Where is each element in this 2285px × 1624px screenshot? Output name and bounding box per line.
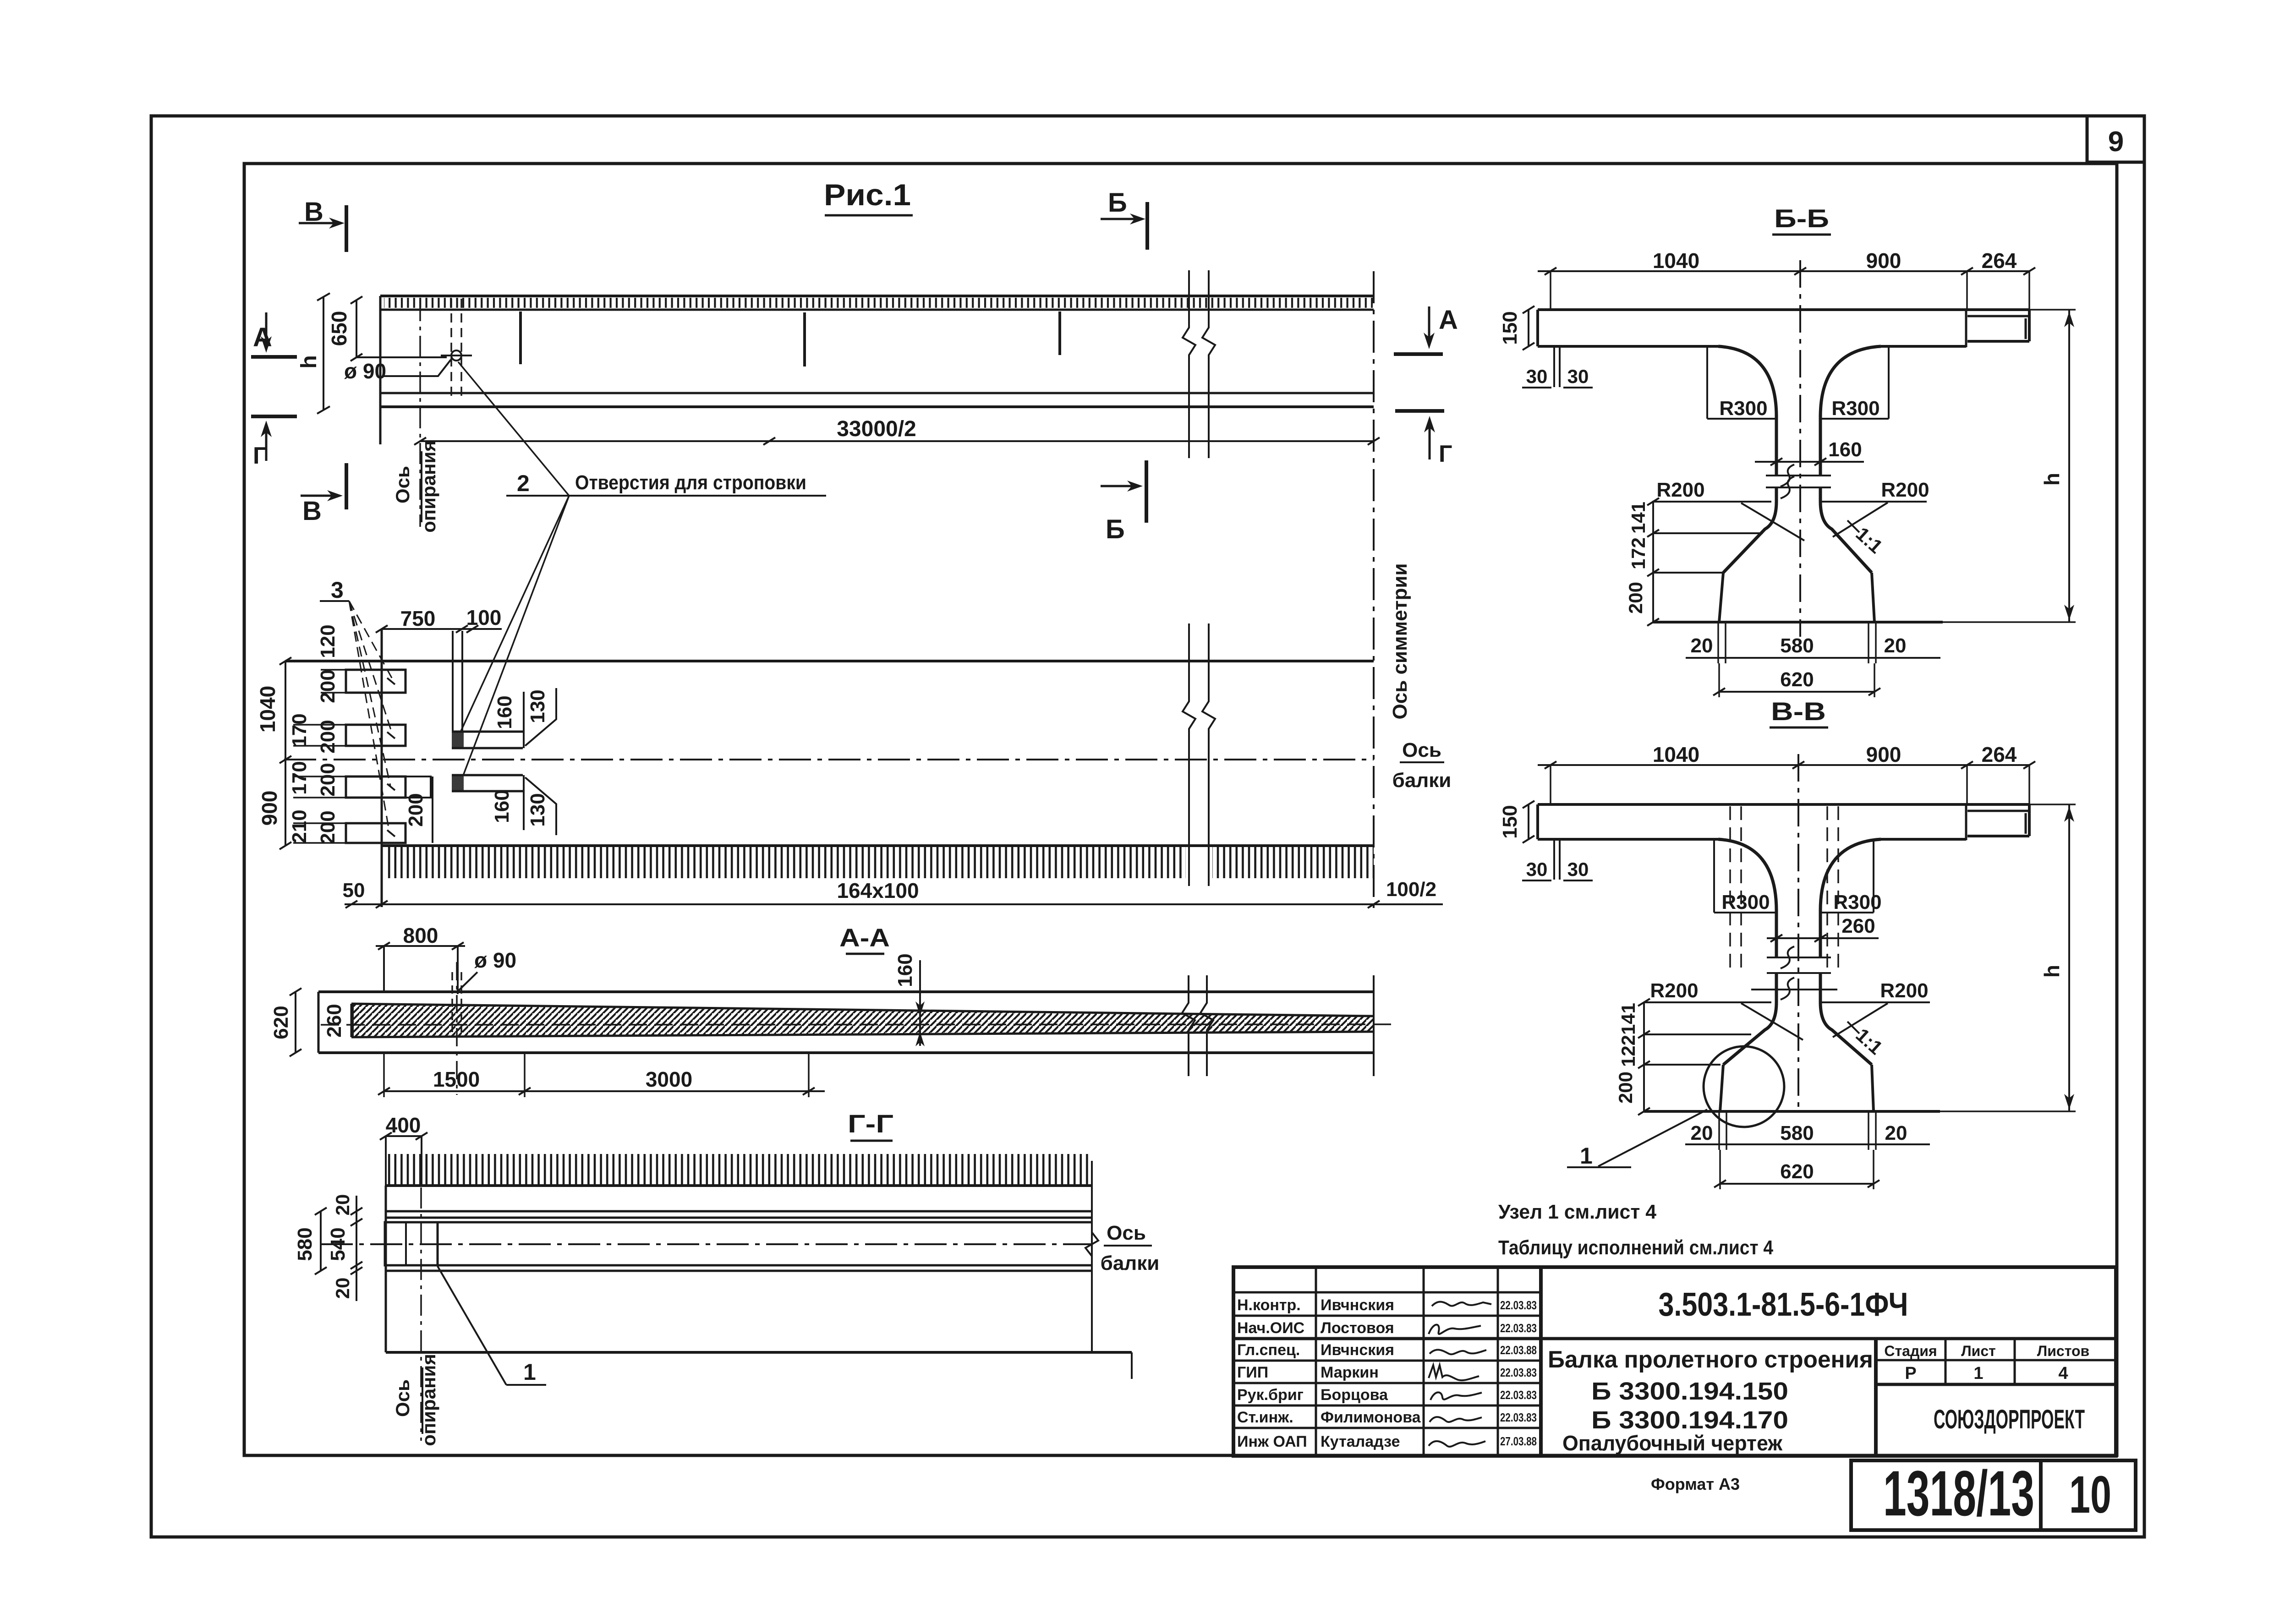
- dim 540/20 vertical line: [356, 1196, 357, 1301]
- plan view top edge: [285, 660, 1374, 662]
- signature row4: [1430, 1350, 1486, 1354]
- signature table row line 4: [1233, 1360, 1541, 1362]
- ББ dim 160 line: [1755, 461, 1864, 463]
- section marker B top: cut bar: [345, 205, 348, 252]
- ББ dim 150 line: [1528, 310, 1529, 346]
- svg-text:50: 50: [343, 879, 365, 902]
- svg-text:100/2: 100/2: [1386, 878, 1436, 901]
- ББ flange left end: [1536, 310, 1539, 346]
- svg-text:620: 620: [1780, 668, 1814, 691]
- dim 160 lower: vertical line: [523, 775, 525, 830]
- svg-text:30: 30: [1526, 858, 1548, 880]
- svg-text:150: 150: [1499, 311, 1521, 344]
- ВВ flange bottom right: [1881, 838, 1966, 841]
- detail 1 leader foot: [506, 1384, 546, 1386]
- ВВ R200 right line: [1819, 1001, 1930, 1003]
- ВВ dim tick 4: [2023, 761, 2035, 769]
- svg-text:800: 800: [403, 924, 438, 947]
- svg-text:22.03.83: 22.03.83: [1500, 1388, 1537, 1402]
- svg-text:R200: R200: [1881, 479, 1929, 501]
- svg-text:20: 20: [1691, 1122, 1713, 1144]
- svg-text:Б: Б: [1106, 514, 1125, 544]
- svg-text:33000/2: 33000/2: [837, 417, 916, 441]
- ББ flange bottom left: [1538, 345, 1718, 348]
- dim 33000/2: left tick: [414, 437, 426, 445]
- svg-text:В-В: В-В: [1771, 697, 1826, 726]
- svg-text:R200: R200: [1880, 979, 1928, 1002]
- dim 800: line: [376, 945, 465, 947]
- dim 540 tick 4: [351, 1267, 362, 1274]
- svg-text:Ось: Ось: [1107, 1222, 1146, 1244]
- svg-text:750: 750: [400, 607, 436, 630]
- svg-text:Борцова: Борцова: [1321, 1386, 1388, 1404]
- svg-text:1: 1: [523, 1359, 536, 1385]
- A-A break line right: [1200, 975, 1213, 1076]
- svg-text:580: 580: [1780, 634, 1814, 657]
- anchor tick row1: [387, 678, 395, 684]
- svg-text:2: 2: [517, 470, 530, 496]
- ББ left R300 fillet curve: [1718, 346, 1776, 417]
- ББ R200 right pointer: [1833, 503, 1888, 537]
- svg-text:3000: 3000: [646, 1067, 692, 1091]
- Г-Г axis dash-dot: [321, 1243, 1092, 1245]
- ВВ dim 620 line: [1720, 1183, 1874, 1185]
- callout 3: dashed leader to row3: [349, 601, 390, 786]
- stadia table header row line: [1876, 1359, 2116, 1362]
- dim 800: tick left: [378, 942, 390, 950]
- svg-text:Ст.инж.: Ст.инж.: [1237, 1409, 1293, 1426]
- anchor outlet rect row2: [346, 725, 405, 746]
- signature table row line 6: [1233, 1405, 1541, 1407]
- bearing plate square: [385, 1222, 438, 1265]
- extension line y1840: [293, 842, 347, 844]
- svg-text:Н.контр.: Н.контр.: [1237, 1296, 1301, 1314]
- signature row3: [1429, 1325, 1481, 1334]
- dim 164x100: tick 50 left: [345, 901, 357, 908]
- signature row8: [1429, 1441, 1485, 1447]
- section marker Б top: arrowhead: [1130, 213, 1145, 224]
- dim 160 (A-A right): vertical line with arrows: [919, 960, 921, 1046]
- ББ 20/580/20 ext right inner: [1868, 623, 1869, 663]
- ББ web right edge upper: [1819, 415, 1822, 476]
- svg-text:R300: R300: [1833, 891, 1881, 913]
- svg-text:160: 160: [493, 695, 516, 729]
- ББ dim line 1040/900/264: [1538, 270, 2029, 272]
- ВВ web dashes between breaks: [1767, 957, 1831, 958]
- svg-text:Б: Б: [1108, 188, 1127, 218]
- svg-text:122: 122: [1617, 1035, 1639, 1067]
- leader from note to plan hole 2: [463, 496, 569, 776]
- svg-text:Г: Г: [1439, 441, 1452, 467]
- dim 260: vertical line: [352, 1004, 354, 1037]
- section marker Б top: arrow line: [1101, 218, 1140, 220]
- svg-text:160: 160: [894, 953, 916, 987]
- signature table row line 2: [1233, 1315, 1541, 1317]
- ВВ left dims tick 2: [1638, 1031, 1650, 1038]
- ББ R300 right box line: [1820, 418, 1889, 420]
- section marker Г right: arrowhead: [1424, 416, 1435, 432]
- svg-text:Маркин: Маркин: [1321, 1364, 1379, 1381]
- title block outer box: [1233, 1267, 2116, 1456]
- svg-text:Рис.1: Рис.1: [824, 178, 911, 212]
- anchor tick row2: [387, 732, 395, 738]
- ВВ bottom flange left taper: [1720, 1065, 1723, 1111]
- svg-text:22.03.83: 22.03.83: [1500, 1298, 1537, 1312]
- svg-text:Лостовоя: Лостовоя: [1321, 1319, 1394, 1337]
- section marker B bottom: arrowhead: [327, 490, 343, 501]
- svg-text:R200: R200: [1656, 479, 1704, 501]
- dim h: vertical line: [323, 297, 324, 410]
- svg-text:20: 20: [1884, 634, 1907, 657]
- lifting hole plan upper: tongue bottom: [452, 747, 523, 749]
- ББ dim h top arrow: [2064, 312, 2074, 327]
- leader from note to plan hole 1: [460, 496, 569, 733]
- callout 3: underline: [320, 600, 349, 602]
- svg-text:h: h: [2040, 473, 2064, 486]
- section marker Г right: cut bar: [1395, 409, 1444, 413]
- svg-text:Ось: Ось: [392, 466, 413, 503]
- stadia table bottom line: [1876, 1383, 2116, 1386]
- dim 164x100: tick left: [376, 901, 388, 908]
- slab band tick hatching: [384, 298, 1373, 308]
- ВВ R300 right box line: [1820, 912, 1874, 913]
- section В-В title underline: [1770, 727, 1828, 729]
- beam axis fraction bar (Г-Г right): [1104, 1245, 1152, 1247]
- svg-text:1040: 1040: [256, 686, 279, 733]
- section Г-Г title underline: [850, 1140, 893, 1142]
- svg-text:ø 90: ø 90: [474, 948, 516, 972]
- svg-text:22.03.83: 22.03.83: [1500, 1411, 1537, 1424]
- Г-Г slab edge line 2: [386, 1217, 1092, 1219]
- dim 1500/3000: tick 3: [803, 1088, 815, 1095]
- dim 33000/2: right tick: [1368, 437, 1380, 445]
- plan left dim line 1040/900: [285, 661, 286, 846]
- svg-text:620: 620: [1780, 1160, 1814, 1183]
- svg-text:900: 900: [1866, 249, 1901, 273]
- title block vertical divider before stamp columns: [1874, 1339, 1878, 1456]
- detail circle leader foot: [1567, 1166, 1631, 1168]
- beam top edge: [380, 295, 1374, 297]
- svg-text:170: 170: [288, 713, 311, 747]
- ВВ flange bottom left: [1538, 838, 1718, 841]
- dim 160 upper: vertical line: [523, 692, 525, 748]
- ББ left dims line y1250: [1653, 572, 1723, 574]
- ББ R200 left line: [1652, 501, 1771, 503]
- ВВ dim h vertical: [2068, 804, 2070, 1111]
- A-A hole hidden edges dashed: [451, 972, 453, 1032]
- dim 33000/2: mid tick: [763, 437, 775, 445]
- ББ dim extension left: [1550, 271, 1551, 310]
- ВВ right block step vertical: [1965, 804, 1967, 840]
- ВВ left R300 fillet curve: [1718, 839, 1776, 911]
- ББ web left edge lower stub: [1775, 487, 1778, 502]
- svg-text:30: 30: [1526, 366, 1548, 387]
- ВВ right block inner short vertical: [2025, 813, 2027, 834]
- ББ dim 150 tick bottom: [1523, 343, 1534, 350]
- svg-text:Куталадзе: Куталадзе: [1321, 1433, 1400, 1450]
- svg-text:260: 260: [1841, 915, 1875, 937]
- ББ dim 160 tick right: [1814, 458, 1826, 465]
- ББ left dims tick 3: [1647, 569, 1659, 576]
- svg-text:210: 210: [288, 809, 311, 843]
- svg-text:150: 150: [1499, 805, 1521, 838]
- ВВ lower right fillet and slant: [1820, 1002, 1872, 1065]
- svg-text:20: 20: [1885, 1122, 1907, 1144]
- ВВ flange left end: [1536, 804, 1539, 839]
- ВВ dim h top arrow: [2064, 806, 2074, 822]
- svg-text:Б 3300.194.170: Б 3300.194.170: [1591, 1406, 1788, 1434]
- svg-text:200: 200: [1625, 582, 1646, 614]
- dim 130 lower: leader: [525, 777, 556, 835]
- section marker A right: arrowhead: [1424, 333, 1435, 349]
- ВВ lower left fillet and slant: [1723, 1002, 1776, 1065]
- svg-text:130: 130: [526, 793, 549, 826]
- anchor tick row3: [387, 784, 395, 790]
- ББ dim extension right: [2028, 271, 2030, 310]
- beam slab band bottom line: [380, 309, 1374, 311]
- ВВ dim 260 tick left: [1770, 935, 1782, 942]
- section marker Б bottom: arrow line: [1101, 485, 1135, 487]
- ВВ dim h bottom ext: [1940, 1110, 2076, 1112]
- ВВ dim 30 right underline: [1563, 880, 1593, 881]
- svg-text:170: 170: [288, 761, 311, 794]
- signature row6: [1430, 1392, 1482, 1400]
- section A-A title underline: [846, 953, 884, 955]
- outer frame: [151, 116, 2144, 1537]
- svg-text:Отверстия для строповки: Отверстия для строповки: [575, 471, 806, 494]
- elevation break line left: [1183, 270, 1195, 458]
- ББ left dims line y1164: [1653, 532, 1763, 534]
- ВВ right block inner top line: [1967, 810, 2029, 812]
- svg-text:Узел 1 см.лист 4: Узел 1 см.лист 4: [1498, 1201, 1657, 1223]
- svg-text:Ось: Ось: [1402, 739, 1441, 761]
- ББ right block step vertical: [1965, 310, 1967, 347]
- dim 1500/3000: tick 1: [378, 1088, 390, 1095]
- section marker A right: arrow stem: [1428, 306, 1430, 340]
- sheet number box: [2041, 1460, 2136, 1530]
- svg-text:R300: R300: [1831, 397, 1880, 420]
- ВВ dim tick 3: [1961, 761, 1973, 769]
- ВВ R200 right pointer: [1833, 1003, 1888, 1037]
- plan break line left: [1183, 623, 1195, 886]
- signature table column line 1: [1315, 1267, 1317, 1456]
- ББ dim 620 tick left: [1713, 688, 1725, 695]
- svg-text:опирания: опирания: [418, 1354, 439, 1446]
- svg-text:580: 580: [1780, 1122, 1814, 1144]
- svg-text:А-А: А-А: [839, 923, 890, 952]
- svg-text:А: А: [253, 323, 272, 352]
- dim 650: hole level extension line: [356, 356, 447, 358]
- svg-text:Ось симметрии: Ось симметрии: [1389, 563, 1411, 720]
- ББ web break upper slash: [1781, 465, 1794, 487]
- ВВ right R300 fillet curve: [1820, 839, 1881, 911]
- Г-Г right break edge: [1091, 1161, 1093, 1352]
- extension line y1695: [293, 776, 347, 777]
- beam left end edge: [379, 296, 382, 444]
- ВВ dim extension right: [2028, 765, 2030, 804]
- ВВ dim 20/580/20 line: [1685, 1143, 1930, 1145]
- Г-Г left edge: [385, 1186, 387, 1352]
- svg-text:100: 100: [466, 606, 502, 629]
- ББ dim extension mid-right: [1966, 271, 1968, 310]
- ББ left dims vertical: [1652, 502, 1654, 622]
- svg-text:20: 20: [332, 1278, 353, 1299]
- ББ 30/30 marks: stud lines: [1553, 346, 1555, 387]
- ВВ dim 620 ext right: [1873, 1150, 1874, 1189]
- callout 3: dashed leader to row1: [349, 601, 393, 680]
- A-A break line left: [1182, 975, 1195, 1076]
- ББ bottom base line: [1653, 621, 1943, 623]
- ББ bottom flange left taper: [1719, 573, 1723, 622]
- ВВ 20/580/20 ext left inner: [1726, 1112, 1727, 1150]
- dim 1500/3000: ext line left: [383, 1054, 385, 1097]
- ББ dim tick 1: [1545, 268, 1556, 275]
- ББ dim 150 tick top: [1523, 306, 1534, 313]
- detail circle leader: [1598, 1110, 1707, 1166]
- detail circle Узел 1: [1704, 1046, 1784, 1127]
- svg-text:Ось: Ось: [392, 1379, 413, 1417]
- svg-text:Г: Г: [253, 443, 266, 469]
- dim 540 tick 3: [351, 1262, 362, 1269]
- svg-text:120: 120: [317, 624, 339, 658]
- ББ web break lower slash: [1781, 476, 1794, 498]
- dim 580 vertical line: [320, 1211, 322, 1271]
- ББ R300 left box vertical: [1706, 347, 1708, 419]
- svg-text:650: 650: [327, 311, 351, 346]
- section marker A right: cut bar: [1394, 352, 1443, 356]
- signature table row line 1: [1233, 1291, 1541, 1294]
- ВВ right block bottom: [1967, 835, 2029, 837]
- svg-text:3: 3: [331, 577, 344, 603]
- svg-text:СОЮЗДОРПРОЕКТ: СОЮЗДОРПРОЕКТ: [1934, 1405, 2085, 1434]
- page number box 9: [2087, 116, 2144, 162]
- dim 400: line: [386, 1135, 422, 1137]
- beam axis label fraction bar: [1400, 761, 1444, 763]
- svg-text:540: 540: [327, 1227, 349, 1261]
- svg-text:R300: R300: [1721, 891, 1770, 913]
- svg-text:Лист: Лист: [1961, 1343, 1996, 1359]
- anchor outlet rect row1: [346, 670, 405, 693]
- ВВ hidden hole dashed lines right pair: [1826, 806, 1828, 968]
- ВВ R300 right box vertical: [1873, 840, 1874, 913]
- inner frame: [244, 164, 2117, 1455]
- ББ dim h vertical: [2068, 310, 2070, 622]
- ББ lower right fillet and slant: [1820, 502, 1872, 573]
- Г-Г slab edge line 1: [386, 1210, 1092, 1213]
- ВВ 20/580/20 ext right outer: [1875, 1112, 1877, 1150]
- dim 620: vertical line: [295, 992, 296, 1053]
- svg-text:Гл.спец.: Гл.спец.: [1237, 1341, 1300, 1359]
- ББ R200 left pointer: [1741, 503, 1804, 541]
- svg-text:Инж ОАП: Инж ОАП: [1237, 1433, 1307, 1450]
- A-A hole axis dash-dot: [456, 962, 458, 1095]
- ВВ bottom flange right taper: [1872, 1065, 1874, 1111]
- ВВ dim tick 2: [1792, 761, 1804, 769]
- svg-text:1318/13: 1318/13: [1883, 1457, 2034, 1529]
- dim 540 tick 1: [351, 1208, 362, 1215]
- ВВ dim 620 tick right: [1868, 1180, 1880, 1187]
- ББ right R300 fillet curve: [1820, 346, 1881, 417]
- svg-text:ø 90: ø 90: [344, 359, 386, 383]
- svg-text:Балка пролетного строения: Балка пролетного строения: [1548, 1346, 1873, 1373]
- ВВ dim 260 tick right: [1814, 935, 1826, 942]
- ВВ R200 left line: [1644, 1001, 1771, 1003]
- dim 200 inner vertical: [432, 776, 433, 843]
- svg-text:160: 160: [1828, 438, 1862, 461]
- section marker A left: arrowhead: [261, 336, 272, 353]
- ББ dim 620 ext right: [1874, 663, 1875, 697]
- anchor outlet rect row3: [346, 776, 405, 798]
- ББ 20/580/20 ext left outer: [1717, 623, 1719, 663]
- dim 164x100: line: [345, 903, 1443, 905]
- plan left dim tick top: [279, 657, 291, 665]
- row3 inner step rect: [405, 776, 431, 798]
- svg-text:балки: балки: [1392, 769, 1452, 792]
- lifting hole plan lower: tongue bottom: [452, 790, 523, 793]
- ББ right block inner short vertical: [2025, 318, 2027, 339]
- dim 800: right bracket: [457, 946, 459, 994]
- ВВ dim 30 left underline: [1522, 880, 1551, 881]
- ББ dim 30 left underline: [1522, 387, 1551, 388]
- svg-text:9: 9: [2108, 126, 2124, 158]
- ВВ dim h top ext: [2029, 804, 2076, 805]
- A-A duct band left end: [351, 1004, 353, 1037]
- plan view left end edge: [381, 629, 383, 907]
- svg-text:R200: R200: [1650, 979, 1698, 1002]
- dim 650: top tick: [351, 296, 362, 304]
- ББ R300 right box vertical: [1888, 347, 1890, 419]
- signature table column line 3: [1497, 1267, 1499, 1456]
- plan bottom rib hatching: [385, 847, 1186, 878]
- plan left dim tick bottom: [279, 842, 291, 849]
- lifting hole plan upper: tongue top: [452, 731, 523, 733]
- svg-text:580: 580: [294, 1227, 316, 1261]
- dim 160 (A-A right): bottom arrow: [915, 1032, 925, 1046]
- ВВ web right edge upper: [1819, 909, 1822, 957]
- ВВ web break slash 1: [1781, 946, 1794, 968]
- transverse strip right edge: [461, 631, 463, 732]
- plan left dim tick mid: [279, 756, 291, 763]
- svg-text:172: 172: [1627, 537, 1649, 569]
- svg-text:264: 264: [1982, 743, 2017, 766]
- svg-text:200: 200: [317, 810, 339, 844]
- callout 3: dashed leader to row4: [349, 601, 389, 833]
- detail 1 leader line: [438, 1266, 506, 1385]
- signature row2: [1432, 1302, 1491, 1306]
- svg-text:Филимонова: Филимонова: [1321, 1409, 1421, 1426]
- svg-text:h: h: [2040, 965, 2064, 978]
- extension line y1582: [293, 724, 347, 726]
- ББ 20/580/20 ext right outer: [1875, 623, 1877, 663]
- ВВ left dims line y2258: [1644, 1033, 1751, 1035]
- ВВ dim 150 tick bottom: [1523, 836, 1534, 843]
- ВВ dim tick 1: [1545, 761, 1556, 769]
- anchor outlet rect row4: [346, 823, 405, 843]
- anchor tick row4: [387, 830, 395, 837]
- dim ø90 leader line: [383, 360, 451, 376]
- svg-text:200: 200: [317, 763, 339, 796]
- dim 164x100: tick right: [1368, 901, 1380, 908]
- ВВ 20/580/20 ext left outer: [1718, 1112, 1720, 1150]
- section marker Б bottom: cut bar: [1145, 460, 1148, 523]
- A-A right end line: [1373, 975, 1375, 1076]
- ББ dim h top ext: [2029, 309, 2076, 311]
- section marker Б top: cut bar: [1145, 202, 1149, 250]
- ВВ web right edge lower stub: [1819, 973, 1822, 1002]
- ББ 1:1 slope tick: [1847, 520, 1859, 532]
- ББ web left edge upper: [1775, 415, 1778, 476]
- svg-text:264: 264: [1982, 249, 2017, 273]
